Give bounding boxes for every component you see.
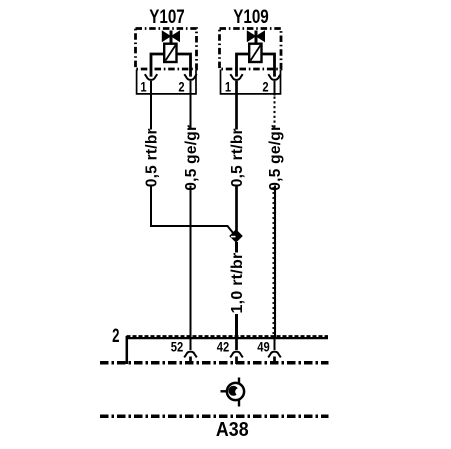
trunk wire lower segment to bus (235, 314, 238, 337)
wire Y107 pin2 upper segment (190, 81, 192, 130)
internal wire Y109 coil to pin 1 (237, 54, 250, 77)
bus line 2 dashed top edge (127, 335, 329, 337)
pin 52 socket (184, 352, 197, 358)
pin 52 wire stub from bus (190, 338, 192, 350)
pin 2 socket of Y107 (184, 74, 196, 80)
pin 49 wire stub from bus (274, 338, 276, 350)
pin 42 socket (230, 352, 243, 358)
connector housing of Y109 (221, 70, 281, 94)
splice junction white notch (231, 236, 236, 238)
A38 boundary lower dash-dot line (100, 415, 329, 419)
pin 1 socket of Y107 (145, 74, 157, 80)
pin 42 wire stub from bus (235, 338, 238, 350)
trunk wire below splice (235, 242, 238, 253)
wire Y109 pin1 upper segment (235, 81, 238, 130)
svg-text:2: 2 (262, 79, 268, 94)
valve symbol Y107 (162, 31, 179, 63)
solenoid valve Y107 boundary box (136, 29, 197, 70)
pin 2 socket of Y109 (268, 74, 280, 80)
hydraulic unit symbol circle (227, 383, 244, 400)
svg-text:1: 1 (140, 79, 146, 94)
solenoid valve Y109 boundary box (220, 29, 282, 70)
svg-text:0,5 rt/br: 0,5 rt/br (144, 128, 161, 187)
pin 52 stub to A38 boundary (189, 357, 192, 365)
pin 42 stub to A38 boundary (235, 357, 238, 365)
svg-text:49: 49 (257, 339, 269, 354)
svg-text:0,5 ge/gr: 0,5 ge/gr (267, 125, 284, 191)
wire Y109 pin1 lower segment to splice (235, 186, 238, 232)
hydraulic unit symbol inner crescent (228, 386, 238, 396)
bus line 2 solid edge (127, 337, 329, 339)
hydraulic unit symbol bottom stub (238, 400, 240, 407)
internal wire Y107 coil to pin 2 (177, 54, 191, 77)
wire Y109 pin2 dotted segment (274, 97, 276, 130)
internal wire Y107 coil to pin 1 (151, 54, 164, 77)
wire Y107 pin1 upper segment (150, 81, 152, 130)
svg-text:A38: A38 (216, 419, 249, 441)
dotted companion line of Y109 pin2 wire (272, 187, 274, 336)
internal wire Y109 coil to pin 2 (262, 54, 275, 77)
svg-text:1,0 rt/br: 1,0 rt/br (229, 253, 246, 314)
wire Y107 pin1 lower segment with bend to splice (151, 186, 234, 234)
svg-text:1: 1 (225, 79, 231, 94)
svg-text:2: 2 (178, 79, 184, 94)
connector housing of Y107 (137, 70, 196, 94)
splice junction diamond (229, 229, 243, 243)
svg-text:42: 42 (217, 339, 229, 354)
bus left drop to A38 boundary (126, 336, 129, 364)
valve symbol Y109 (247, 31, 264, 63)
svg-text:Y107: Y107 (149, 5, 184, 27)
pin 49 socket (268, 352, 281, 358)
wire Y109 pin2 upper solid stub (274, 81, 276, 96)
wire Y107 pin2 lower segment to bus (190, 186, 192, 338)
hydraulic unit symbol top stub (238, 378, 240, 385)
pin 49 stub to A38 boundary (273, 357, 276, 365)
svg-text:0,5 ge/gr: 0,5 ge/gr (183, 125, 200, 191)
svg-text:52: 52 (171, 339, 183, 354)
svg-text:Y109: Y109 (233, 5, 268, 27)
pin 1 socket of Y109 (230, 74, 242, 80)
wire Y109 pin2 lower segment to bus (274, 186, 276, 338)
A38 boundary upper dash-dot line (100, 361, 329, 365)
hydraulic unit symbol left stub (221, 390, 228, 392)
svg-text:0,5 rt/br: 0,5 rt/br (229, 128, 246, 187)
svg-text:2: 2 (112, 324, 119, 346)
